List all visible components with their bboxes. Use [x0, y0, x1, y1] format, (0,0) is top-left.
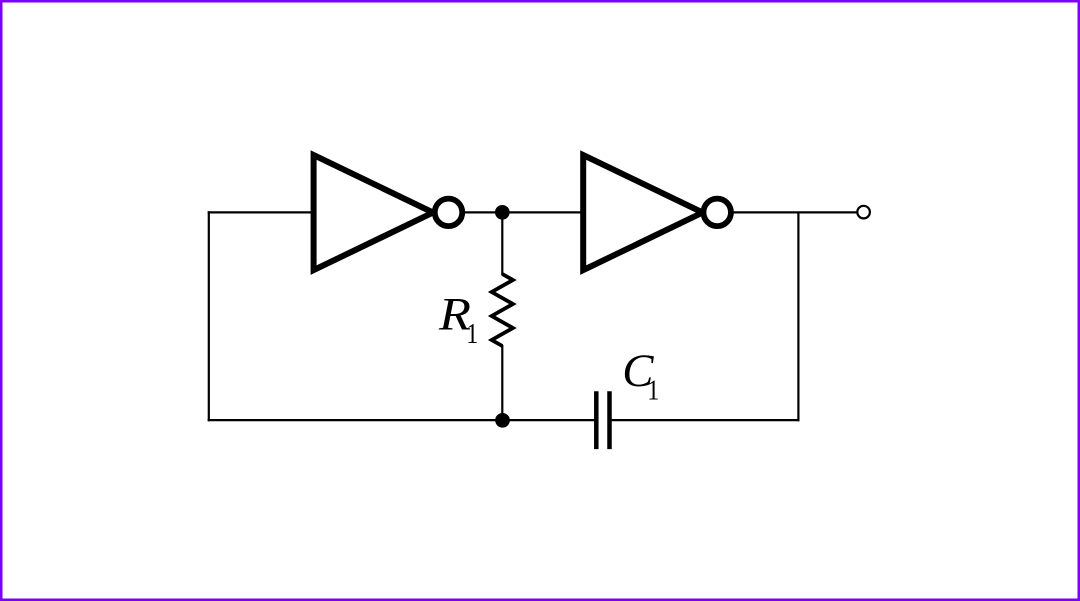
- wire: left feedback vertical: [208, 211, 210, 421]
- wire: bottom left horizontal to capacitor: [208, 419, 595, 421]
- wire: input feedback top-left horizontal: [208, 211, 314, 213]
- inverter U2 output bubble: [703, 199, 731, 227]
- inverter U2 triangle: [583, 155, 702, 270]
- capacitor C1 right plate: [607, 391, 612, 449]
- wire: resistor bottom lead: [501, 345, 503, 420]
- svg-text:1: 1: [466, 318, 478, 350]
- wire: right vertical branch: [797, 212, 799, 421]
- output terminal open circle: [857, 206, 870, 219]
- inverter U1 output bubble: [435, 199, 463, 227]
- svg-text:1: 1: [647, 374, 659, 406]
- wire: bottom right horizontal from capacitor: [612, 419, 800, 421]
- capacitor C1 left plate: [594, 391, 599, 449]
- wire: resistor top lead: [501, 212, 503, 275]
- resistor R1 zigzag: [492, 274, 513, 346]
- wire: output to terminal: [733, 211, 858, 213]
- wire: between inverter U1 output and inverter U2 input: [464, 211, 584, 213]
- node junction dot bottom: [495, 413, 510, 428]
- inverter U1 triangle: [314, 155, 433, 270]
- node junction dot top: [495, 205, 510, 220]
